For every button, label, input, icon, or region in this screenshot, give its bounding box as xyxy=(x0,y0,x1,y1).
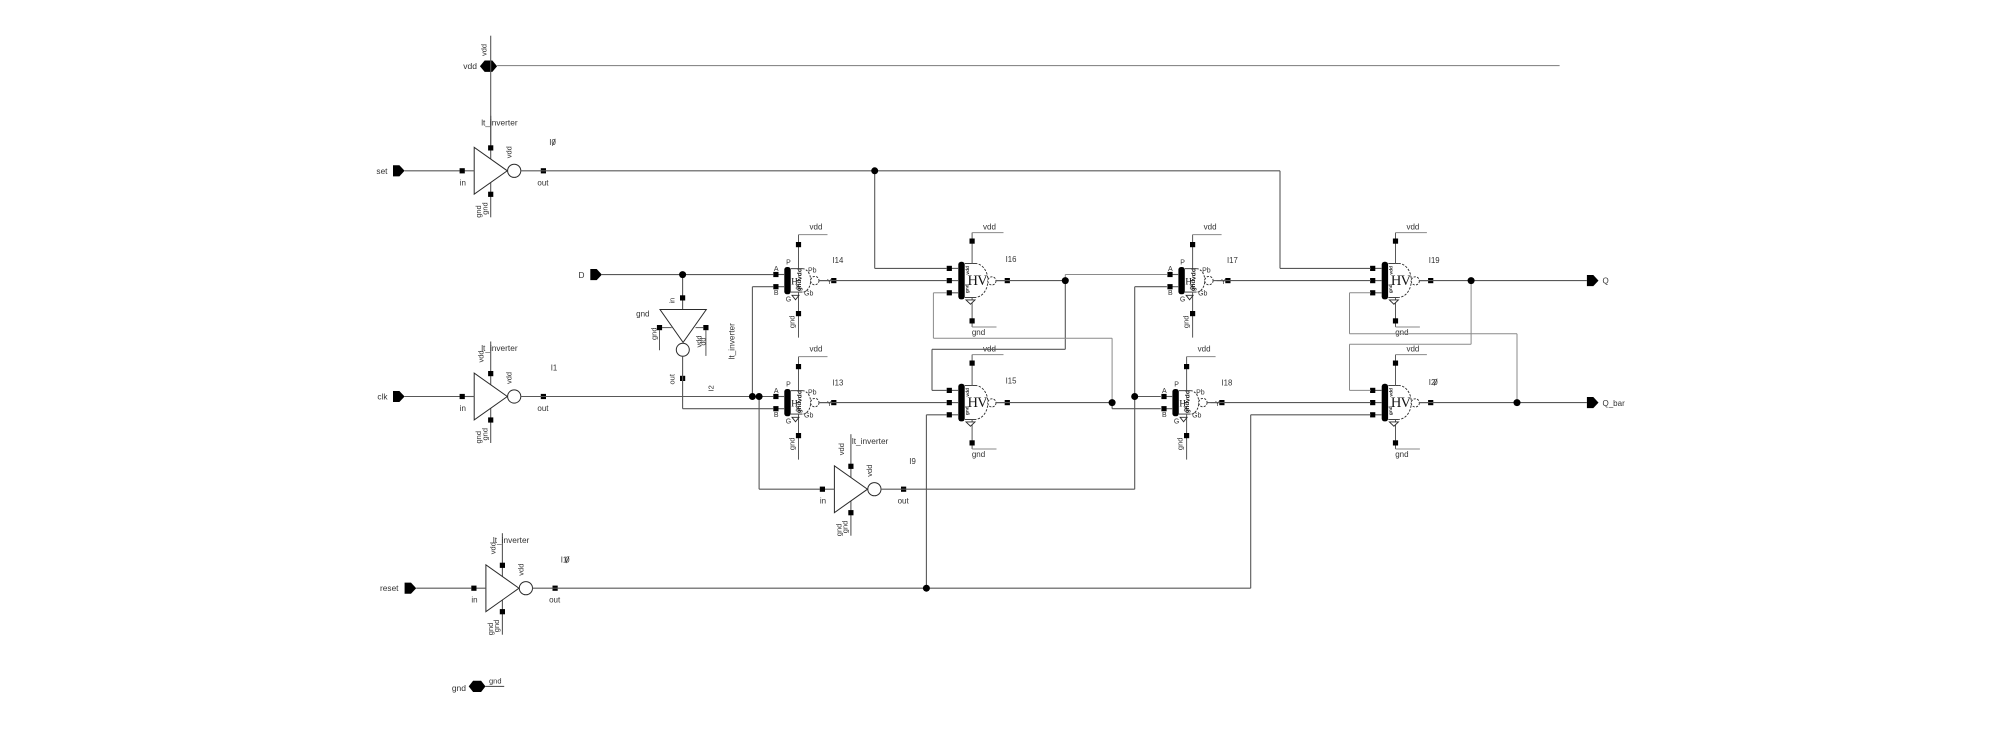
wire gnd stub xyxy=(486,677,505,687)
svg-text:vdd: vdd xyxy=(810,222,823,231)
svg-text:Y: Y xyxy=(827,279,832,286)
power pin vdd (hexagon) xyxy=(463,44,497,72)
input pin D xyxy=(579,269,602,280)
wire reset: pin to I10.in xyxy=(416,587,471,589)
svg-text:P: P xyxy=(786,260,791,267)
wire net I18.Y to I20.B xyxy=(1211,402,1371,404)
svg-text:I19: I19 xyxy=(1429,256,1440,265)
junction Q / feedback riser xyxy=(1468,277,1475,284)
svg-text:out: out xyxy=(898,497,910,506)
svg-text:in: in xyxy=(471,596,477,605)
svg-text:vdd: vdd xyxy=(1191,268,1198,280)
svg-text:clk: clk xyxy=(377,392,388,402)
junction I16.Y node xyxy=(1062,277,1069,284)
svg-text:vdd: vdd xyxy=(1204,222,1217,231)
output pin Q_bar xyxy=(1587,397,1625,408)
svg-text:gnd: gnd xyxy=(492,620,501,633)
svg-text:gnd: gnd xyxy=(965,284,971,293)
svg-text:Gb: Gb xyxy=(1192,412,1201,419)
inverter I1 (lt_inverter, clk buffer) xyxy=(460,342,558,444)
junction set_b / I16.A branch xyxy=(871,167,878,174)
svg-text:B: B xyxy=(1168,290,1173,297)
svg-text:gnd: gnd xyxy=(481,428,490,441)
svg-text:Y: Y xyxy=(827,401,832,408)
wire set_b: I0.out to I16.A and I19.A xyxy=(521,171,1371,269)
wire net I15.Y to I18.B and I16.C xyxy=(933,293,1160,409)
svg-text:gnd: gnd xyxy=(1388,284,1394,293)
svg-text:gnd: gnd xyxy=(650,327,659,340)
nand gate I15 (3-input) xyxy=(947,344,1017,458)
junction clk_b / I14.B riser xyxy=(749,393,756,400)
svg-text:gnd: gnd xyxy=(841,521,850,534)
svg-text:out: out xyxy=(537,404,549,413)
wire D_b: I2.out to I13.B xyxy=(683,356,774,408)
svg-text:B: B xyxy=(774,412,779,419)
svg-text:I15: I15 xyxy=(1006,376,1018,385)
svg-text:vdd: vdd xyxy=(463,61,477,71)
svg-text:G: G xyxy=(1174,419,1179,426)
svg-text:Q: Q xyxy=(1603,277,1609,286)
input pin set xyxy=(376,165,404,176)
wire net I14.Y to I16.B xyxy=(819,280,947,282)
svg-text:dd: dd xyxy=(701,338,708,346)
svg-text:in: in xyxy=(460,178,466,187)
svg-text:out: out xyxy=(537,178,549,187)
output pin Q xyxy=(1587,275,1609,286)
svg-text:Q_bar: Q_bar xyxy=(1603,399,1626,408)
svg-text:lt_inverter: lt_inverter xyxy=(852,436,889,446)
svg-text:I18: I18 xyxy=(1222,379,1233,388)
wire net Q: I19.Y to Q pin and I20.A xyxy=(1350,281,1587,391)
svg-text:G: G xyxy=(786,419,791,426)
svg-text:vdd: vdd xyxy=(1388,388,1394,397)
junction D / I2.in xyxy=(679,271,686,278)
inverter I9 (lt_inverter) xyxy=(820,434,916,536)
svg-text:vdd: vdd xyxy=(810,344,823,353)
svg-text:P: P xyxy=(1180,260,1185,267)
svg-text:Pb: Pb xyxy=(1202,267,1211,274)
svg-text:vdd: vdd xyxy=(837,443,846,455)
svg-text:G: G xyxy=(786,297,791,304)
svg-text:gnd: gnd xyxy=(1388,406,1394,415)
svg-text:HV: HV xyxy=(1391,395,1412,411)
svg-text:gnd: gnd xyxy=(452,683,466,693)
svg-text:I14: I14 xyxy=(833,256,845,265)
svg-text:lt_inverter: lt_inverter xyxy=(481,343,518,353)
svg-text:in: in xyxy=(820,497,826,506)
nand gate I14 (2-input) xyxy=(773,222,844,337)
svg-text:A: A xyxy=(774,266,779,273)
svg-text:Gb: Gb xyxy=(1198,290,1207,297)
svg-text:vdd: vdd xyxy=(505,146,514,158)
svg-text:vdd: vdd xyxy=(1185,390,1192,402)
svg-text:vdd: vdd xyxy=(797,390,804,402)
inverter I2 (lt_inverter, rotated, D inverter) xyxy=(636,275,736,392)
wire net I16.Y to I17.A and I15.A xyxy=(932,275,1167,391)
svg-text:set: set xyxy=(376,166,388,176)
svg-text:vdd: vdd xyxy=(1388,266,1394,275)
svg-text:vdd: vdd xyxy=(505,372,514,384)
svg-text:HV: HV xyxy=(1391,273,1412,289)
nand gate I13 (2-input) xyxy=(773,344,843,459)
nand gate I20 (3-input) xyxy=(1370,344,1438,458)
wire net I17.Y to I19.B xyxy=(1217,280,1371,282)
svg-text:vdd: vdd xyxy=(983,222,996,231)
svg-text:gnd: gnd xyxy=(636,310,649,319)
junction clk2 / I18.A branch xyxy=(1131,393,1138,400)
svg-text:P: P xyxy=(1174,382,1179,389)
junction I15.Y node xyxy=(1109,399,1116,406)
wire net I13.Y to I15.B xyxy=(819,402,947,404)
svg-text:vdd: vdd xyxy=(965,388,971,397)
input pin clk xyxy=(377,391,404,402)
svg-text:vdd: vdd xyxy=(965,266,971,275)
svg-text:vdd: vdd xyxy=(865,465,874,477)
svg-text:A: A xyxy=(1168,266,1173,273)
input pin reset xyxy=(380,583,416,594)
svg-text:B: B xyxy=(1162,412,1167,419)
ground pin gnd (hexagon) xyxy=(452,681,486,693)
svg-text:vdd: vdd xyxy=(1406,344,1419,353)
svg-text:HV: HV xyxy=(968,395,989,411)
svg-text:I1: I1 xyxy=(551,364,558,373)
svg-text:Y: Y xyxy=(1215,401,1220,408)
svg-text:gnd: gnd xyxy=(1176,438,1185,451)
svg-text:vdd: vdd xyxy=(516,564,525,576)
svg-text:D: D xyxy=(579,270,585,280)
svg-text:Gb: Gb xyxy=(804,290,813,297)
svg-text:gnd: gnd xyxy=(965,406,971,415)
wire vdd: hexagon to right edge xyxy=(491,36,1560,147)
nand gate I17 (2-input) xyxy=(1167,222,1237,337)
svg-text:vdd: vdd xyxy=(1198,344,1211,353)
svg-text:vdd: vdd xyxy=(797,268,804,280)
svg-text:gnd: gnd xyxy=(481,202,490,215)
svg-text:vdd: vdd xyxy=(1406,222,1419,231)
svg-text:gnd: gnd xyxy=(796,402,803,414)
svg-text:HV: HV xyxy=(968,273,989,289)
svg-text:I13: I13 xyxy=(833,379,844,388)
wire clk_b: I1.out to I13.A, I14.B, I9.in xyxy=(521,287,820,490)
svg-text:reset: reset xyxy=(380,583,399,593)
svg-text:Pb: Pb xyxy=(1196,389,1205,396)
junction reset_b / I15.C riser xyxy=(923,585,930,592)
svg-text:gnd: gnd xyxy=(1395,450,1408,459)
svg-text:I17: I17 xyxy=(1227,256,1238,265)
svg-text:gnd: gnd xyxy=(1395,328,1408,337)
svg-text:out: out xyxy=(668,373,677,384)
svg-text:Pb: Pb xyxy=(808,389,817,396)
svg-text:gnd: gnd xyxy=(796,280,803,292)
wire net Q_bar: I20.Y to Q_bar pin and I19.C xyxy=(1350,293,1587,403)
nand gate I18 (2-input) xyxy=(1161,344,1232,459)
svg-text:gnd: gnd xyxy=(788,316,797,329)
junction Q_bar / feedback riser xyxy=(1514,399,1521,406)
svg-text:in: in xyxy=(460,404,466,413)
svg-text:gnd: gnd xyxy=(972,328,985,337)
svg-text:B: B xyxy=(774,290,779,297)
inverter I0 (lt_inverter, set buffer) xyxy=(460,116,557,218)
junction clk_b / I9.in riser xyxy=(756,393,763,400)
svg-text:lt_inverter: lt_inverter xyxy=(481,118,518,128)
svg-text:gnd: gnd xyxy=(489,677,502,686)
svg-text:I2: I2 xyxy=(707,385,716,391)
svg-text:Pb: Pb xyxy=(808,267,817,274)
wire clk: pin to I1.in xyxy=(405,396,460,398)
svg-text:I16: I16 xyxy=(1006,255,1017,264)
svg-text:P: P xyxy=(786,382,791,389)
nand gate I19 (3-input) xyxy=(1370,222,1440,336)
wire reset_b: I10.out to I15.C and I20.C xyxy=(532,415,1370,588)
svg-text:gnd: gnd xyxy=(1182,316,1191,329)
svg-text:G: G xyxy=(1180,297,1185,304)
svg-text:I9: I9 xyxy=(909,457,916,466)
wire set: pin to I0.in xyxy=(405,170,460,172)
svg-text:in: in xyxy=(668,298,677,304)
svg-text:lt_inverter: lt_inverter xyxy=(727,323,737,360)
svg-text:gnd: gnd xyxy=(1184,402,1191,414)
svg-text:Y: Y xyxy=(1221,279,1226,286)
wire D: pin to I14.A and I2.in xyxy=(602,274,773,276)
svg-text:vdd: vdd xyxy=(480,44,489,56)
svg-text:A: A xyxy=(1162,388,1167,395)
inverter I10 (lt_inverter, reset buffer) xyxy=(471,533,570,635)
nand gate I16 (3-input) xyxy=(947,222,1017,336)
wire clk2: I9.out to I17.B and I18.A xyxy=(881,287,1167,490)
svg-text:gnd: gnd xyxy=(1190,280,1197,292)
svg-text:lt_inverter: lt_inverter xyxy=(493,535,530,545)
svg-text:gnd: gnd xyxy=(972,450,985,459)
svg-text:gnd: gnd xyxy=(788,438,797,451)
svg-text:Gb: Gb xyxy=(804,412,813,419)
svg-text:A: A xyxy=(774,388,779,395)
svg-text:out: out xyxy=(549,596,561,605)
